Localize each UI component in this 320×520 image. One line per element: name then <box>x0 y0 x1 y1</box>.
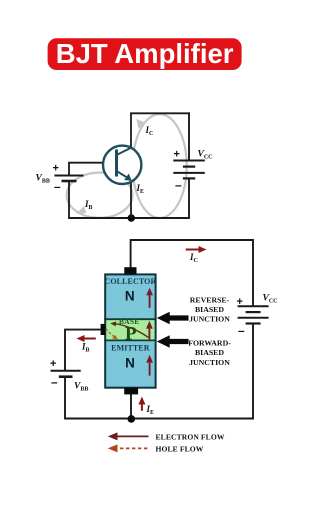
svg-text:IE: IE <box>146 404 155 416</box>
junction pointer arrow forward-biased <box>157 335 189 347</box>
gray loop right arrowhead <box>136 119 145 129</box>
svg-text:REVERSE-: REVERSE- <box>190 295 230 304</box>
svg-text:+: + <box>237 296 243 308</box>
svg-text:IB: IB <box>84 199 93 211</box>
svg-text:+: + <box>53 163 59 175</box>
gray current loop right (collector-emitter loop) <box>133 114 187 218</box>
junction line base-emitter <box>104 339 156 341</box>
svg-text:JUNCTION: JUNCTION <box>189 315 230 324</box>
svg-text:COLLECTOR: COLLECTOR <box>104 277 156 286</box>
battery VCC2 plate 3 long <box>238 317 269 319</box>
battery VBB2 top plate <box>51 370 81 372</box>
svg-text:IB: IB <box>81 342 90 354</box>
junction dot bottom circuit <box>128 415 136 423</box>
svg-text:BJT Amplifier: BJT Amplifier <box>56 38 234 69</box>
wire: top rail of top circuit <box>130 112 190 114</box>
battery VCC2 plate 2 short <box>246 311 261 313</box>
svg-text:ELECTRON FLOW: ELECTRON FLOW <box>156 432 225 441</box>
junction line base-collector <box>104 318 156 320</box>
svg-text:EMITTER: EMITTER <box>111 344 150 353</box>
transistor Q1 emitter lead <box>117 171 129 178</box>
wire: VBB2 to bottom rail <box>64 377 66 419</box>
svg-text:IC: IC <box>189 252 198 264</box>
svg-text:BIASED: BIASED <box>195 348 224 357</box>
battery VCC plate 3 long <box>173 172 205 174</box>
collector terminal block <box>124 267 136 274</box>
emitter terminal block <box>124 388 138 395</box>
gray loop left arrowhead <box>76 206 86 214</box>
svg-text:+: + <box>50 358 56 370</box>
wire: base wire from VBB to transistor <box>69 163 104 176</box>
junction dot top circuit <box>128 214 135 221</box>
transistor block outer border <box>105 274 155 387</box>
svg-text:HOLE FLOW: HOLE FLOW <box>156 444 204 453</box>
current arrow IB2 <box>76 335 95 342</box>
battery VCC2 plate 1 long <box>238 305 269 307</box>
transistor block base region P <box>105 319 155 340</box>
current arrow IC2 <box>186 246 207 253</box>
svg-text:BIASED: BIASED <box>195 305 224 314</box>
gray current loop left (base-emitter loop) <box>67 173 133 218</box>
wire: VCC2 down right rail to bottom <box>64 324 253 419</box>
wire: bottom rail of top circuit <box>68 217 190 219</box>
battery VCC plate 1 long <box>173 160 205 162</box>
base terminal block <box>101 324 106 335</box>
svg-text:JUNCTION: JUNCTION <box>189 358 230 367</box>
battery VBB2 bottom plate <box>59 375 73 378</box>
title banner <box>48 38 242 70</box>
wire: collector top rail <box>131 240 253 306</box>
svg-text:VCC: VCC <box>263 294 278 305</box>
battery VBB bottom plate (-) <box>62 180 77 183</box>
electron-flow arrow base <box>146 321 153 340</box>
transistor block emitter region N <box>105 340 155 387</box>
electron path curve in base <box>110 321 148 337</box>
transistor block collector region N <box>105 274 155 319</box>
wire: base wire to VBB2 <box>65 330 101 371</box>
wire: emitter down to rail <box>130 181 132 218</box>
svg-text:N: N <box>125 288 135 303</box>
electron-flow arrow collector <box>146 288 153 308</box>
svg-text:–: – <box>238 324 245 338</box>
svg-text:–: – <box>51 375 58 389</box>
wire: VCC to bottom rail <box>188 178 190 218</box>
svg-text:VCC: VCC <box>198 150 213 161</box>
battery VCC plate 4 short <box>183 177 195 179</box>
battery VBB top plate (+) <box>54 175 83 177</box>
svg-text:–: – <box>54 180 61 194</box>
transistor Q1 circle <box>103 146 141 184</box>
legend electron flow arrow <box>108 432 149 440</box>
electron-flow arrow emitter <box>146 355 153 376</box>
current arrow IE2 <box>138 397 145 411</box>
wire: emitter down to bottom rail <box>130 394 132 419</box>
battery VCC plate 2 short <box>183 166 195 168</box>
svg-text:VBB: VBB <box>36 174 50 185</box>
wire: collector up to top rail <box>130 113 132 148</box>
svg-text:FORWARD-: FORWARD- <box>188 338 231 347</box>
legend hole flow arrow <box>108 444 149 452</box>
svg-text:IC: IC <box>145 125 154 137</box>
junction pointer arrow reverse-biased <box>157 312 189 324</box>
wire: VBB down to bottom rail <box>68 181 70 218</box>
svg-text:+: + <box>174 149 180 161</box>
wire: right rail to VCC <box>188 112 190 160</box>
transistor Q1 emitter arrowhead <box>124 174 132 182</box>
transistor Q1 base bar <box>115 150 118 177</box>
svg-text:–: – <box>175 178 182 192</box>
transistor Q1 collector lead <box>117 148 132 156</box>
svg-text:VBB: VBB <box>74 382 88 393</box>
battery VCC2 plate 4 short <box>246 322 261 324</box>
hole path dashed curve in base <box>106 329 118 340</box>
svg-text:N: N <box>125 356 135 371</box>
